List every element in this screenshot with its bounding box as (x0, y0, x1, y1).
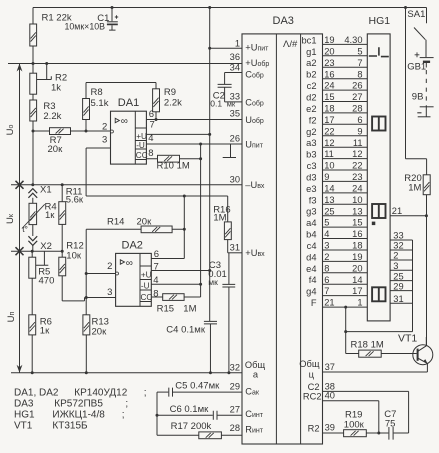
wire segment b3: DA3 pin 11 to HG1 pin 12 (306, 149, 367, 159)
capacitor C4 (204, 321, 217, 372)
svg-text:9В: 9В (412, 92, 424, 103)
svg-text:30: 30 (230, 174, 240, 184)
svg-text:7: 7 (357, 58, 362, 68)
ADC chip DA3 (242, 34, 323, 444)
junction (62.2,184.8) (61, 183, 64, 186)
junction (184.3,229.3) (183, 228, 186, 231)
wire segment a2: DA3 pin 23 to HG1 pin 7 (306, 58, 367, 68)
resistor R10 (158, 155, 180, 162)
wire HG1 pin21 (390, 215, 426, 217)
junction (209.7,270.5) (208, 269, 211, 272)
wire HG1 pin 32 (390, 241, 412, 251)
svg-text:C2: C2 (308, 382, 320, 392)
op-amp DA2 (116, 253, 153, 306)
svg-text:31: 31 (230, 243, 240, 253)
svg-text:12: 12 (352, 149, 362, 159)
svg-text:28: 28 (352, 104, 362, 114)
junction (345.7,331.6) (344, 330, 347, 333)
wire R13 leads (85, 298, 87, 373)
svg-text:9: 9 (324, 172, 329, 182)
wire DA1 pin4 -U / DA3 pin26 (146, 143, 242, 145)
wire DA3 pin39 R2 via R19 (323, 432, 389, 434)
junction (86.2,273.5) (85, 272, 88, 275)
resistor R15 (163, 294, 184, 301)
wire R9 leads (155, 83, 157, 120)
junction (228.9,372.7) (227, 371, 230, 374)
wire DA2 pin4 -U (151, 283, 200, 285)
svg-text:23: 23 (324, 58, 334, 68)
junction (32.8,184.8) (31, 183, 34, 186)
svg-text:;: ; (144, 388, 147, 399)
svg-text:8: 8 (153, 289, 158, 300)
wire segment g1: DA3 pin 20 to HG1 pin 5 (306, 46, 367, 56)
wire top rail to R20 (406, 8, 427, 175)
svg-text:3: 3 (107, 287, 112, 298)
svg-text:мк: мк (208, 277, 218, 287)
svg-text:1M: 1M (183, 304, 196, 315)
svg-text:Общ: Общ (245, 360, 266, 370)
svg-text:26: 26 (352, 81, 362, 91)
svg-text:4: 4 (324, 229, 329, 239)
capacitor C5 (157, 388, 242, 397)
wire R5/R6 column (31, 251, 33, 373)
svg-text:75: 75 (385, 419, 396, 430)
svg-text:6: 6 (324, 275, 329, 285)
junction (86,131) (85, 130, 88, 133)
wire common bus to DA3 pin32 (11, 372, 242, 374)
wire DA3 pin38 C2 (323, 391, 409, 433)
svg-text:c2: c2 (307, 81, 317, 91)
svg-text:b3: b3 (306, 150, 316, 160)
svg-text:R8: R8 (91, 87, 103, 98)
wire R8 leads (85, 83, 87, 132)
wire segment c2: DA3 pin 24 to HG1 pin 26 (307, 81, 368, 91)
capacitor C1 (107, 8, 118, 31)
wire segment d4: DA3 pin 2 to HG1 pin 19 (306, 252, 367, 262)
svg-text:CC: CC (136, 151, 148, 160)
resistor R6 (29, 315, 36, 335)
junction (184.3,196) (183, 195, 186, 198)
wire DA2 pin6 to +Uvx (183, 196, 185, 259)
svg-text:27: 27 (230, 405, 240, 415)
junction (86.3,372.7) (85, 371, 88, 374)
svg-text:7: 7 (150, 119, 155, 130)
svg-text:+U: +U (136, 132, 147, 141)
svg-text:1M: 1M (408, 182, 421, 193)
common stub terminal near pin26 (223, 144, 236, 158)
svg-text:32: 32 (393, 241, 403, 251)
svg-text:29: 29 (230, 382, 240, 392)
svg-text:8: 8 (324, 263, 329, 273)
svg-text:t°: t° (22, 224, 28, 234)
svg-text:CC: CC (141, 293, 153, 302)
wire R2/R3 column (32, 64, 34, 185)
wire R14 leads (86, 228, 184, 230)
wire R8-R9 feedback (86, 82, 156, 84)
svg-text:КР572ПВ5: КР572ПВ5 (54, 399, 103, 410)
wire HG1 pin 3 (390, 261, 412, 271)
resistor R13 (83, 315, 90, 335)
svg-text:5.6к: 5.6к (66, 194, 84, 205)
wire segment d2: DA3 pin 15 to HG1 pin 27 (306, 92, 367, 102)
wire segment b4: DA3 pin 4 to HG1 pin 16 (306, 229, 367, 239)
svg-text:13: 13 (352, 206, 362, 216)
resistor R9 (153, 89, 160, 112)
junction (209.7,48.3) (208, 47, 211, 50)
wire R11 leads (61, 185, 63, 251)
wire R17 row DA3 pin28 (157, 434, 242, 436)
resistor R18 (359, 350, 382, 357)
wire -Uvx line DA3 pin30 to X1 (11, 184, 242, 186)
svg-text:3: 3 (102, 135, 107, 146)
svg-text:7: 7 (154, 262, 159, 273)
wire segment c3: DA3 pin 10 to HG1 pin 22 (307, 161, 368, 171)
wire DA3 pin31 (228, 252, 242, 254)
svg-text:Λ/#: Λ/# (283, 39, 298, 50)
resistor R2 with tap to rail (30, 73, 37, 94)
wire DA2 pin3 from R12 (62, 298, 115, 301)
svg-text:-U: -U (136, 141, 145, 150)
svg-text:HG1: HG1 (14, 410, 35, 421)
wire backplane bus bottom (346, 331, 413, 333)
junction (209.7,7.5) (208, 6, 211, 9)
resistor R7 (50, 128, 71, 135)
svg-text:а: а (253, 370, 259, 380)
svg-text:∞: ∞ (126, 258, 133, 269)
junction (405.5,7.5) (404, 6, 407, 9)
wire segment bc1: DA3 pin 19 to HG1 pin 4.30 (302, 35, 368, 45)
svg-text:bc1: bc1 (302, 35, 317, 45)
svg-text:∞: ∞ (121, 116, 128, 127)
junction (33,63.5) (32, 62, 35, 65)
wire R18 to VT1 base (346, 353, 417, 355)
wire segment a3: DA3 pin 12 to HG1 pin 11 (306, 138, 367, 148)
svg-text:VT1: VT1 (14, 421, 33, 432)
svg-text:f2: f2 (309, 115, 317, 125)
junction (86.2,297.5) (85, 296, 88, 299)
svg-text:26: 26 (230, 134, 240, 144)
svg-text:5.1k: 5.1k (91, 98, 109, 109)
wire backplane bus vertical (412, 240, 414, 332)
svg-text:ц: ц (309, 370, 315, 380)
wire segment e4: DA3 pin 8 to HG1 pin 20 (306, 263, 367, 273)
svg-text:12: 12 (324, 138, 334, 148)
svg-text:g3: g3 (306, 207, 316, 217)
svg-text:10мк×10В: 10мк×10В (65, 22, 106, 32)
battery GB1 (415, 52, 434, 116)
svg-text:22: 22 (324, 126, 334, 136)
wire F net drop to R18 (345, 307, 347, 353)
measurement rail Uo/Uk/Up with arrows (17, 64, 23, 373)
node X-mark at X1 level (16, 181, 24, 189)
wire HG1 pin 2 (390, 251, 412, 261)
svg-text:470: 470 (39, 275, 55, 286)
svg-text:28: 28 (230, 423, 240, 433)
svg-text:5: 5 (324, 218, 329, 228)
wire HG1 pin 33 (390, 231, 412, 241)
wire HG1 pin 25 (390, 271, 412, 281)
svg-text:29: 29 (393, 281, 403, 291)
svg-text:C6 0.1мк: C6 0.1мк (170, 404, 210, 415)
HG1 digit cell 2 (372, 117, 385, 131)
svg-text:c4: c4 (307, 241, 317, 251)
svg-text:3: 3 (393, 261, 398, 271)
svg-text:11: 11 (353, 138, 363, 148)
svg-text:VT1: VT1 (398, 333, 417, 345)
wire segment c4: DA3 pin 3 to HG1 pin 18 (307, 241, 368, 251)
junction (210.45,372.7) (209, 371, 212, 374)
svg-text:13: 13 (324, 195, 334, 205)
svg-text:37: 37 (325, 362, 335, 372)
capacitor C3 (222, 253, 235, 373)
wire segment f3: DA3 pin 13 to HG1 pin 10 (309, 195, 368, 205)
svg-text:Общ: Общ (299, 359, 320, 369)
wire R16 bottom to pin31 (227, 240, 229, 253)
svg-text:24: 24 (352, 184, 362, 194)
wire +Uobr rail to DA3 pin36 (8, 63, 242, 65)
svg-text:4.30: 4.30 (344, 35, 362, 45)
svg-text:35: 35 (230, 109, 240, 119)
wire DA3 pin1 +Upit (210, 47, 242, 49)
wire segment a4: DA3 pin 5 to HG1 pin 15 (306, 218, 367, 228)
capacitor C2 (218, 73, 242, 102)
junction (209.7,134.4) (208, 133, 211, 136)
svg-text:R2: R2 (308, 424, 320, 434)
svg-text:2: 2 (393, 251, 398, 261)
svg-text:16: 16 (324, 69, 334, 79)
svg-text:-U: -U (141, 281, 150, 290)
wire DA2 pin6 out (151, 258, 184, 260)
svg-text:1к: 1к (45, 210, 55, 221)
svg-text:R17 200k: R17 200k (171, 421, 212, 432)
wire segment g4: DA3 pin 7 to HG1 pin 17 (306, 286, 367, 296)
wire segment d3: DA3 pin 9 to HG1 pin 23 (306, 172, 367, 182)
svg-text:18: 18 (324, 104, 334, 114)
wire chevron to X2 line (32, 245, 34, 251)
svg-text:9: 9 (357, 126, 362, 136)
svg-text:g4: g4 (306, 287, 316, 297)
svg-text:;: ; (122, 410, 125, 421)
svg-text:КР140УД12: КР140УД12 (74, 388, 127, 399)
svg-text:DA2: DA2 (122, 240, 143, 252)
wire top +9V rail (33, 7, 427, 9)
wire DA2 pin8 CC via R15 (151, 296, 200, 298)
svg-text:15: 15 (352, 218, 362, 228)
HG1 decimal point (372, 222, 376, 226)
svg-text:27: 27 (352, 92, 362, 102)
svg-text:2.2k: 2.2k (43, 111, 61, 122)
wire segment b2: DA3 pin 16 to HG1 pin 8 (306, 69, 367, 79)
wire segment g2: DA3 pin 22 to HG1 pin 9 (306, 126, 367, 136)
junction (112,7.5) (111, 6, 114, 9)
svg-text:25: 25 (324, 206, 334, 216)
svg-text:f4: f4 (309, 275, 317, 285)
svg-text:c3: c3 (307, 161, 317, 171)
svg-text:23: 23 (352, 172, 362, 182)
svg-text:a2: a2 (306, 58, 316, 68)
svg-text:2: 2 (107, 261, 112, 272)
wire DA1 pin7 +U (146, 133, 209, 135)
terminal X2 chevron (28, 236, 37, 245)
wire V+ vertical rail (209, 8, 211, 322)
svg-text:10: 10 (324, 161, 334, 171)
svg-text:1к: 1к (40, 326, 50, 337)
wire integrator node vertical (156, 392, 158, 435)
svg-text:e4: e4 (306, 264, 316, 274)
svg-text:20к: 20к (48, 144, 64, 155)
wire DA1 pin8 CC via R10 (146, 158, 200, 160)
svg-text:19: 19 (324, 35, 334, 45)
junction (200.6,158.7) (199, 157, 202, 160)
svg-text:33: 33 (393, 231, 403, 241)
svg-text:34: 34 (230, 62, 240, 72)
svg-text:ИЖКЦ1-4/8: ИЖКЦ1-4/8 (52, 410, 105, 421)
capacitor C7 (389, 427, 409, 440)
svg-text:DA1, DA2: DA1, DA2 (14, 388, 59, 399)
svg-text:20: 20 (352, 263, 362, 273)
resistor R17 (199, 432, 222, 439)
svg-text:19: 19 (352, 252, 362, 262)
svg-text:X2: X2 (40, 241, 52, 252)
svg-text:20: 20 (324, 46, 334, 56)
HG1 digit cell 3 (372, 204, 385, 218)
wire DA2 pin7 +U (151, 270, 209, 272)
svg-text:21: 21 (392, 206, 402, 216)
svg-text:a4: a4 (306, 218, 316, 228)
junction (33,131) (32, 130, 35, 133)
svg-text:8: 8 (357, 69, 362, 79)
wire X1 to R4 (32, 198, 34, 204)
svg-text:1M: 1M (213, 213, 226, 224)
svg-text:6: 6 (357, 115, 362, 125)
svg-text:X1: X1 (40, 185, 52, 196)
junction (345.7,307.1) (344, 306, 347, 309)
wire R4 to X2 chevron (32, 225, 34, 236)
resistor R14 (141, 226, 172, 233)
wire X2 line (11, 250, 62, 252)
svg-text:17: 17 (324, 115, 334, 125)
svg-text:d2: d2 (306, 93, 316, 103)
wire R2 tap (37, 64, 52, 80)
resistor R19 (344, 430, 367, 437)
wire segment f2: DA3 pin 17 to HG1 pin 6 (309, 115, 368, 125)
svg-text:DA1: DA1 (118, 97, 139, 109)
svg-text:32: 32 (230, 362, 240, 372)
HG1 digit cell 4 (372, 287, 385, 301)
svg-text:R15: R15 (157, 304, 174, 315)
wire segment F: DA3 pin 21 to HG1 pin 1 (311, 298, 367, 308)
svg-text:;: ; (125, 399, 128, 410)
wire DA1 pin3 to +Uvx line to R16 (86, 148, 228, 222)
junction (200.6,144) (199, 143, 202, 146)
wire HG1 pin 31 (390, 294, 412, 304)
resistor R1 (30, 24, 37, 46)
svg-text:22: 22 (352, 161, 362, 171)
svg-text:14: 14 (324, 184, 334, 194)
svg-text:10к: 10к (66, 251, 82, 262)
HG1 half-digit and minus marks (369, 47, 389, 56)
svg-text:0.1: 0.1 (210, 98, 222, 108)
svg-text:14: 14 (352, 275, 362, 285)
wire DA2 pin2 (86, 273, 115, 275)
resistor R20 (423, 175, 430, 195)
svg-text:5: 5 (357, 46, 362, 56)
svg-text:DA3: DA3 (14, 399, 34, 410)
junction (32.2,251.2) (31, 250, 34, 253)
svg-text:11: 11 (324, 149, 334, 159)
switch SA1 (414, 8, 427, 58)
svg-text:f3: f3 (309, 195, 317, 205)
svg-text:GB1: GB1 (407, 62, 426, 73)
svg-text:31: 31 (393, 294, 403, 304)
svg-text:40: 40 (325, 391, 335, 401)
svg-text:1: 1 (357, 298, 362, 308)
svg-text:F: F (311, 298, 317, 308)
svg-text:DA3: DA3 (273, 15, 294, 27)
resistor R8 (83, 99, 90, 120)
svg-text:6: 6 (149, 109, 154, 120)
junction (200.6,284.2) (199, 283, 202, 286)
svg-text:2: 2 (324, 252, 329, 262)
svg-text:КТ315Б: КТ315Б (52, 421, 88, 432)
svg-text:21: 21 (324, 298, 334, 308)
svg-text:20к: 20к (137, 216, 153, 227)
junction (378.8,433) (377, 432, 380, 435)
svg-text:R9: R9 (164, 87, 176, 98)
wire segment e2: DA3 pin 18 to HG1 pin 28 (306, 104, 367, 114)
wire segment e3: DA3 pin 14 to HG1 pin 24 (306, 184, 367, 194)
svg-text:a3: a3 (306, 138, 316, 148)
wire R7 to DA1 pin2 (33, 130, 111, 132)
svg-text:SA1: SA1 (407, 9, 425, 20)
wire R12 leads (61, 251, 63, 301)
svg-text:HG1: HG1 (369, 15, 391, 27)
svg-text:RC2: RC2 (303, 392, 322, 402)
wire V- branch (200, 144, 202, 297)
transistor VT1 (413, 337, 433, 372)
svg-text:R14: R14 (107, 216, 124, 227)
junction (32.2,372.7) (31, 371, 34, 374)
svg-text:g2: g2 (306, 127, 316, 137)
svg-text:d3: d3 (306, 172, 316, 182)
capacitor C6 (157, 411, 242, 420)
svg-text:R18 1M: R18 1M (351, 339, 384, 350)
svg-text:10: 10 (352, 195, 362, 205)
svg-text:20к: 20к (92, 326, 108, 337)
LCD display HG1 (367, 34, 390, 321)
svg-text:24: 24 (324, 81, 334, 91)
resistor R12 (59, 257, 66, 276)
junction (157,415.2) (156, 414, 159, 417)
svg-text:e2: e2 (306, 104, 316, 114)
svg-text:2: 2 (102, 121, 107, 132)
wire R1 leads (32, 8, 34, 64)
svg-text:18: 18 (352, 241, 362, 251)
svg-text:8: 8 (148, 148, 153, 159)
wire DA3 pin37 to VT1 emitter (323, 371, 428, 373)
resistor R11 (59, 202, 66, 225)
svg-text:g1: g1 (306, 47, 316, 57)
svg-text:b4: b4 (306, 230, 316, 240)
resistor R5 with tap (29, 257, 36, 278)
svg-text:39: 39 (325, 423, 335, 433)
wire R5 tap from X2 line (36, 251, 49, 265)
resistor R3 (30, 100, 37, 121)
svg-text:+U: +U (141, 271, 152, 280)
wire segment g3: DA3 pin 25 to HG1 pin 13 (306, 206, 367, 216)
junction (46.7,63.5) (45, 62, 48, 65)
svg-text:C4 0.1мк: C4 0.1мк (166, 324, 206, 335)
